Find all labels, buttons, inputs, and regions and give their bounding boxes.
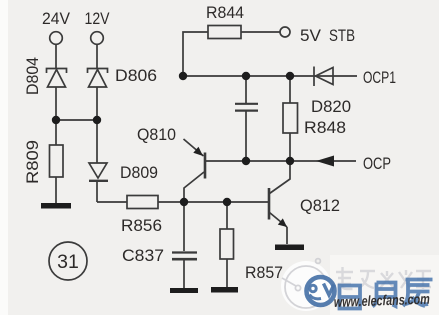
- wire R857 vertical: [226, 202, 228, 288]
- svg-text:31: 31: [57, 251, 79, 273]
- sheet mark 31: [49, 242, 87, 280]
- ground C837: [170, 288, 198, 293]
- ground Q812: [275, 245, 304, 251]
- wire cap C8xx vertical: [245, 76, 247, 161]
- diode D820: [314, 67, 333, 87]
- wire Q812 emitter down: [286, 227, 288, 244]
- node 24V/12V join right: [93, 116, 101, 124]
- transistor Q812: [269, 161, 290, 227]
- wire mid OCP line: [206, 160, 356, 162]
- ground R857: [211, 287, 238, 293]
- capacitor C837: [172, 253, 197, 260]
- node mid cap: [242, 157, 250, 165]
- terminal 24V: [50, 32, 63, 45]
- diode D809: [89, 163, 108, 181]
- svg-text:Q810: Q810: [137, 125, 176, 144]
- watermark faint text 电子发烧友: [336, 267, 431, 289]
- resistor R844: [208, 26, 241, 39]
- svg-text:5V: 5V: [300, 26, 322, 45]
- node 24V/12V join left: [52, 116, 60, 124]
- diode D804: [47, 69, 67, 88]
- watermark logo swirl: [310, 284, 335, 299]
- svg-text:R844: R844: [206, 3, 244, 22]
- svg-text:12V: 12V: [85, 9, 111, 28]
- ground R809: [41, 203, 71, 209]
- wire D809 to R856: [97, 201, 127, 203]
- svg-text:D804: D804: [23, 57, 42, 95]
- resistor R848: [283, 103, 298, 133]
- junction dots: [52, 72, 294, 206]
- svg-text:R857: R857: [245, 263, 283, 282]
- svg-text:www.elecfans.com: www.elecfans.com: [334, 292, 431, 311]
- capacitor C8xx: [235, 104, 258, 111]
- resistor R856: [127, 196, 158, 209]
- svg-text:OCP1: OCP1: [363, 68, 396, 87]
- node bus cap: [242, 72, 250, 80]
- svg-text:R856: R856: [121, 216, 162, 235]
- watermark white halo: [281, 261, 331, 311]
- node bus R848: [286, 72, 294, 80]
- wire 24V vertical: [55, 45, 57, 204]
- terminal 12V: [91, 32, 104, 45]
- resistor R857: [220, 229, 234, 259]
- watermark faint orbit circle: [282, 259, 327, 308]
- svg-text:STB: STB: [329, 26, 355, 45]
- node bottom R857: [223, 198, 231, 206]
- svg-text:D809: D809: [120, 163, 158, 182]
- wire 12V vertical: [96, 45, 98, 203]
- transistor Q810: [184, 139, 206, 202]
- diode D806: [88, 69, 108, 88]
- svg-text:C837: C837: [122, 246, 164, 265]
- wire R848 vertical: [289, 76, 291, 161]
- wire R856 to Q812 base: [158, 201, 268, 203]
- arrow OCP: [316, 156, 334, 167]
- wire node link y120: [56, 119, 97, 121]
- svg-text:OCP: OCP: [363, 154, 391, 173]
- svg-text:D806: D806: [115, 66, 157, 85]
- terminal 5V STB: [280, 27, 290, 37]
- wire top bus: [183, 75, 357, 77]
- wire C837 vertical: [183, 202, 185, 289]
- wire 5V feed corner: [183, 32, 208, 77]
- wire R844 to 5V terminal: [241, 31, 280, 33]
- node bottom C837: [180, 198, 188, 206]
- svg-text:D820: D820: [311, 97, 351, 116]
- resistor R809: [50, 145, 64, 177]
- node mid R848: [286, 157, 294, 165]
- watermark logo ring: [307, 277, 335, 305]
- svg-text:R848: R848: [304, 118, 346, 137]
- svg-text:Q812: Q812: [300, 196, 340, 215]
- watermark 日月辰: [340, 280, 433, 309]
- svg-text:24V: 24V: [42, 9, 71, 28]
- node bus left: [179, 72, 187, 80]
- svg-text:R809: R809: [23, 140, 42, 184]
